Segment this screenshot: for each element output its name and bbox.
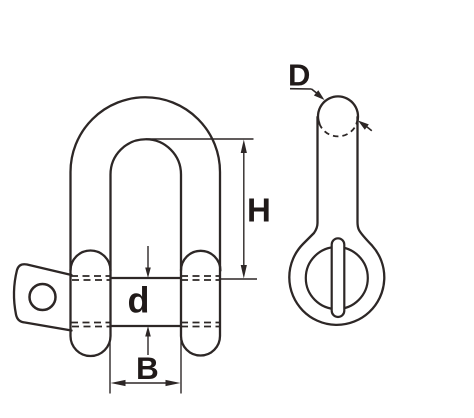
- svg-text:H: H: [247, 192, 271, 229]
- svg-text:B: B: [136, 350, 159, 386]
- svg-text:D: D: [288, 58, 310, 93]
- svg-text:d: d: [128, 280, 150, 321]
